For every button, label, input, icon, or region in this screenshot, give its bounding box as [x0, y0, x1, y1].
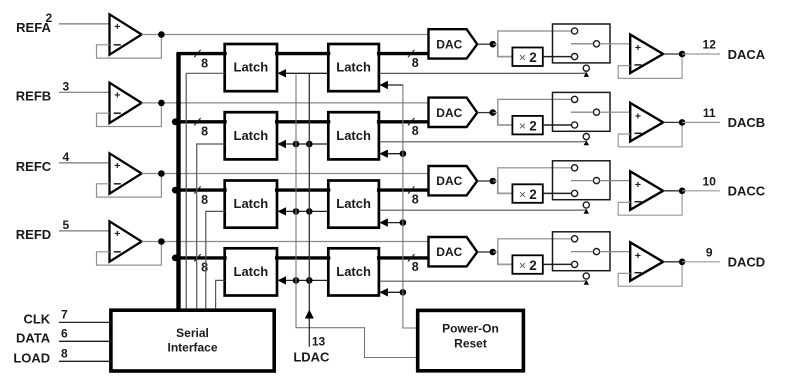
pin label 10 DACC — [703, 174, 766, 198]
svg-text:8: 8 — [201, 125, 208, 139]
svg-text:×: × — [519, 119, 526, 133]
wire data bus latch A1 to latch A2 — [275, 52, 330, 55]
wire x2 A output to switch input 2 — [543, 56, 572, 58]
pin label 13 LDAC — [293, 335, 330, 365]
latch D1 — [225, 248, 277, 295]
wire output pin 12 — [682, 53, 720, 55]
wire data bus row B into first latch — [176, 120, 226, 123]
node buffer A output junction — [158, 31, 165, 38]
wire serial interface top-edge stub — [216, 308, 272, 310]
x2 gain amplifier B — [512, 116, 542, 134]
svg-text:×: × — [519, 51, 526, 65]
wire op-amp A output — [663, 53, 682, 55]
svg-text:+: + — [635, 250, 641, 262]
svg-text:Power-On: Power-On — [442, 321, 499, 335]
wire output pin 11 — [682, 121, 720, 123]
switch D control contact — [583, 273, 589, 279]
wire second-latch D2 load input — [379, 288, 403, 296]
node junction LDAC line row D — [306, 277, 313, 284]
svg-text:2: 2 — [46, 11, 53, 25]
x2 gain amplifier D — [512, 255, 542, 273]
node REFC input pin 4 — [16, 150, 110, 174]
svg-text:DACC: DACC — [728, 184, 766, 199]
op-amp output buffer D — [630, 242, 663, 280]
svg-text:10: 10 — [703, 174, 717, 188]
svg-text:5: 5 — [63, 218, 70, 232]
DAC B — [429, 98, 478, 127]
DAC A — [429, 29, 478, 58]
pin label 12 DACA — [703, 38, 766, 62]
bus width tick and label 8 row C left — [194, 186, 208, 207]
op-amp reference buffer C — [110, 153, 142, 193]
wire switch D output to op-amp — [600, 251, 631, 253]
wire data bus latch D1 to latch D2 — [275, 256, 330, 259]
svg-text:DACD: DACD — [728, 255, 766, 270]
svg-text:Serial: Serial — [176, 326, 209, 340]
pin label 11 DACB — [703, 106, 765, 130]
svg-text:12: 12 — [703, 38, 717, 52]
wire DAC A output to x2 amplifier — [498, 44, 513, 56]
wire serial-interface enable to latch B1 left — [197, 144, 225, 310]
svg-text:DATA: DATA — [16, 331, 51, 346]
wire data bus latch B2 to DAC B — [377, 120, 430, 123]
bus width tick and label 8 row B left — [194, 118, 208, 139]
svg-text:Latch: Latch — [234, 60, 269, 75]
svg-text:9: 9 — [706, 245, 713, 259]
svg-text:×: × — [519, 187, 526, 201]
svg-text:+: + — [114, 89, 120, 101]
op-amp reference buffer B — [110, 83, 142, 123]
bus width tick and label 8 row D left — [194, 254, 208, 275]
node REFD input pin 5 — [16, 218, 110, 242]
svg-text:8: 8 — [61, 346, 68, 360]
wire serial-interface enable to latch C1 left — [206, 211, 225, 310]
svg-text:+: + — [635, 42, 641, 54]
wire latch-enable row D between latches — [278, 276, 329, 284]
wire DAC D output to x2 amplifier — [498, 252, 513, 264]
power-on reset block — [418, 310, 524, 370]
svg-text:+: + — [114, 228, 120, 240]
wire DAC A output to switch input 1 — [493, 43, 498, 45]
svg-text:DAC: DAC — [436, 245, 462, 259]
wire output pin 10 — [682, 190, 720, 192]
svg-text:Latch: Latch — [336, 264, 371, 279]
wire second-latch C2 load input — [379, 218, 403, 226]
latch A2 — [328, 44, 379, 91]
wire op-amp B output — [663, 121, 682, 123]
wire data bus latch B1 to latch B2 — [275, 120, 330, 123]
node junction load line row C — [400, 219, 407, 226]
svg-text:Latch: Latch — [336, 60, 371, 75]
pin label 9 DACD — [706, 245, 765, 269]
serial interface block — [111, 310, 274, 371]
wire latch-enable row A between latches — [278, 69, 329, 77]
op-amp output buffer C — [630, 171, 663, 210]
svg-text:2: 2 — [529, 118, 537, 133]
node DAC D output junction — [490, 249, 497, 256]
switch (range select) A — [553, 24, 611, 63]
switch C control contact — [583, 202, 589, 208]
bus width tick and label 8 row A left — [194, 50, 208, 71]
svg-text:3: 3 — [63, 79, 70, 93]
x2 gain amplifier A — [512, 48, 542, 67]
node CLK input pin 7 — [23, 307, 110, 326]
svg-text:Latch: Latch — [234, 196, 269, 211]
wire x2 B output to switch input 2 — [543, 124, 572, 126]
node op-amp B output junction — [679, 119, 686, 126]
op-amp output buffer A — [630, 35, 663, 74]
svg-text:4: 4 — [63, 150, 70, 164]
svg-text:8: 8 — [412, 192, 419, 206]
op-amp reference buffer A — [110, 14, 142, 54]
wire 8-bit data bus vertical from Serial Interface — [176, 54, 180, 311]
wire data bus latch C1 to latch C2 — [275, 188, 330, 191]
svg-text:7: 7 — [61, 307, 68, 321]
DAC C — [429, 166, 478, 195]
node junction V1 row D — [293, 277, 300, 284]
op-amp output buffer B — [630, 103, 663, 141]
wire op-amp C output — [663, 190, 682, 192]
wire feedback loop buffer D — [97, 242, 162, 266]
wire DAC A output — [477, 43, 489, 45]
wire op-amp B feedback loop — [618, 122, 682, 146]
wire DAC C output — [477, 180, 489, 182]
switch (range select) C — [553, 161, 611, 200]
switch B control contact — [583, 134, 589, 140]
wire DAC C output to switch input 1 — [493, 180, 498, 182]
svg-text:Reset: Reset — [454, 336, 487, 350]
svg-text:Latch: Latch — [336, 196, 371, 211]
wire op-amp A feedback loop — [618, 54, 682, 78]
svg-text:DAC: DAC — [436, 106, 462, 120]
latch A1 — [225, 44, 277, 91]
svg-text:DAC: DAC — [436, 174, 462, 188]
node buffer D output junction — [158, 238, 165, 245]
node DAC B output junction — [490, 109, 497, 116]
svg-text:13: 13 — [312, 335, 326, 349]
svg-text:8: 8 — [412, 124, 419, 138]
svg-text:Latch: Latch — [234, 128, 269, 143]
wire buffered REFA to DAC reference input — [142, 34, 428, 36]
wire data bus row D into first latch — [176, 256, 226, 259]
wire x2 D output to switch input 2 — [543, 263, 572, 265]
wire op-amp D feedback loop — [618, 262, 682, 286]
wire control vertical V1 to Power-On Reset — [296, 73, 418, 357]
bus width tick and label 8 row B right — [408, 118, 419, 138]
bus width tick and label 8 row A right — [408, 50, 419, 70]
switch A control contact — [583, 65, 589, 71]
wire switch C output to op-amp — [600, 180, 631, 182]
wire output pin 9 — [682, 261, 720, 263]
svg-text:Interface: Interface — [167, 341, 217, 355]
wire switch B control from latch B2 — [380, 140, 589, 145]
wire feedback loop buffer B — [97, 103, 162, 127]
wire DAC B output to x2 amplifier — [498, 113, 513, 125]
wire feedback loop buffer A — [97, 35, 162, 59]
svg-text:DACB: DACB — [728, 115, 766, 130]
wire op-amp D output — [663, 261, 682, 263]
latch C1 — [225, 181, 277, 228]
wire switch A control from latch A2 — [380, 72, 589, 77]
node junction LDAC line row B — [306, 141, 313, 148]
svg-text:8: 8 — [201, 193, 208, 207]
node bus junction row D — [172, 255, 179, 262]
wire data bus row C into first latch — [176, 188, 226, 191]
svg-text:2: 2 — [529, 50, 537, 65]
node bus junction row B — [172, 118, 179, 125]
switch (range select) D — [553, 232, 611, 271]
wire op-amp C feedback loop — [618, 191, 682, 215]
wire DAC B output — [477, 112, 489, 114]
wire data bus row A into first latch — [176, 52, 226, 55]
node LOAD input pin 8 — [13, 346, 111, 365]
node bus junction row C — [172, 187, 179, 194]
svg-text:+: + — [114, 160, 120, 172]
wire switch A output to op-amp — [600, 43, 631, 45]
wire feedback loop buffer C — [97, 174, 162, 198]
wire DAC D output to switch input 1 — [493, 251, 498, 253]
node DATA input pin 6 — [16, 326, 111, 345]
svg-text:DAC: DAC — [436, 37, 462, 51]
svg-text:+: + — [114, 21, 120, 33]
svg-text:×: × — [519, 258, 526, 272]
node DAC C output junction — [490, 178, 497, 185]
svg-text:LDAC: LDAC — [293, 350, 330, 365]
svg-text:Latch: Latch — [336, 128, 371, 143]
DAC D — [429, 237, 478, 266]
wire LDAC vertical — [305, 73, 314, 347]
node REFB input pin 3 — [16, 79, 110, 103]
node op-amp D output junction — [679, 259, 686, 266]
wire switch C control from latch C2 — [380, 209, 589, 214]
node junction load line row B — [400, 150, 407, 157]
node DAC A output junction — [490, 41, 497, 48]
node junction LDAC line row C — [306, 208, 313, 215]
svg-text:2: 2 — [529, 258, 537, 273]
wire data bus latch D2 to DAC D — [377, 256, 430, 259]
wire data bus latch C2 to DAC C — [377, 188, 430, 191]
svg-text:REFB: REFB — [16, 89, 51, 104]
switch (range select) B — [553, 92, 611, 131]
wire second-latch A2 load input — [379, 81, 403, 89]
svg-text:8: 8 — [412, 260, 419, 274]
op-amp reference buffer D — [110, 221, 142, 261]
latch C2 — [328, 181, 379, 228]
wire serial-interface enable to latch D1 left — [216, 280, 225, 310]
wire latch-enable row B between latches — [278, 140, 329, 148]
wire DAC C output to x2 amplifier — [498, 181, 513, 193]
svg-text:8: 8 — [412, 56, 419, 70]
node REFA input pin 2 — [16, 11, 109, 35]
wire serial-interface enable to latch A1 left — [186, 73, 225, 310]
node junction V1 row C — [293, 208, 300, 215]
svg-text:CLK: CLK — [23, 312, 50, 327]
bus width tick and label 8 row D right — [408, 254, 419, 274]
node op-amp C output junction — [679, 188, 686, 195]
wire data bus latch A2 to DAC A — [377, 52, 430, 55]
wire load vertical V3 to Power-On Reset — [403, 85, 418, 328]
wire switch B output to op-amp — [600, 111, 631, 113]
svg-text:REFC: REFC — [16, 159, 52, 174]
node junction V1 row B — [293, 141, 300, 148]
svg-text:8: 8 — [201, 56, 208, 70]
wire latch-enable row C between latches — [278, 207, 329, 215]
x2 gain amplifier C — [512, 184, 542, 203]
wire buffered REFC to DAC reference input — [142, 173, 428, 175]
svg-text:6: 6 — [61, 326, 68, 340]
svg-text:Latch: Latch — [234, 264, 269, 279]
wire buffered REFD to DAC reference input — [142, 241, 428, 243]
svg-text:+: + — [635, 111, 641, 123]
svg-text:8: 8 — [201, 261, 208, 275]
wire switch D control from latch D2 — [380, 280, 589, 285]
svg-text:+: + — [635, 179, 641, 191]
node buffer C output junction — [158, 170, 165, 177]
svg-text:2: 2 — [529, 187, 537, 202]
latch D2 — [328, 248, 379, 295]
wire second-latch B2 load input — [379, 150, 403, 158]
node op-amp A output junction — [679, 51, 686, 58]
svg-text:REFD: REFD — [16, 227, 51, 242]
latch B1 — [225, 112, 277, 159]
bus width tick and label 8 row C right — [408, 186, 419, 206]
wire x2 C output to switch input 2 — [543, 192, 572, 194]
latch B2 — [328, 112, 379, 159]
svg-text:LOAD: LOAD — [13, 351, 50, 366]
svg-text:DACA: DACA — [728, 47, 766, 62]
wire buffered REFB to DAC reference input — [142, 102, 428, 104]
node buffer B output junction — [158, 100, 165, 107]
node junction load line row D — [400, 289, 407, 296]
wire DAC D output — [477, 251, 489, 253]
wire DAC B output to switch input 1 — [493, 112, 498, 114]
svg-text:11: 11 — [703, 106, 716, 120]
